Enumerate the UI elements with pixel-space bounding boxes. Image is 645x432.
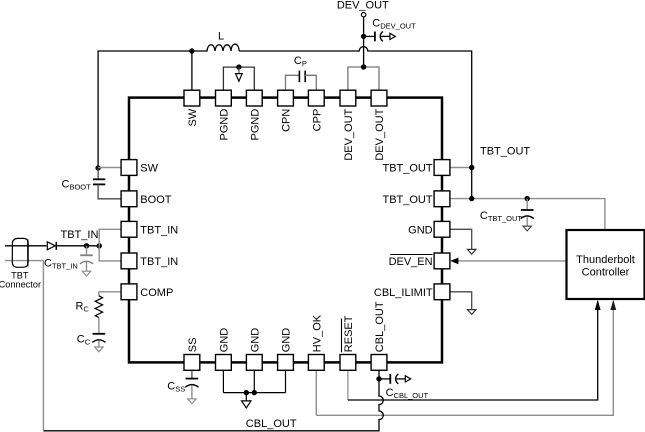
svg-text:TBT_IN: TBT_IN bbox=[61, 229, 99, 241]
wire RESET stub bbox=[347, 370, 349, 400]
node PGND junction bbox=[236, 64, 241, 69]
svg-text:DEV_OUT: DEV_OUT bbox=[337, 0, 389, 11]
node DEV_OUT open-circle terminal bbox=[361, 13, 365, 17]
svg-text:PGND: PGND bbox=[218, 109, 230, 141]
svg-text:CBL_OUT: CBL_OUT bbox=[374, 301, 386, 352]
svg-text:Connector: Connector bbox=[0, 280, 41, 290]
node GND bus junction 2 bbox=[252, 390, 257, 395]
capacitor C_C bbox=[93, 333, 106, 335]
pin GND (bottom) bbox=[246, 355, 262, 371]
pin GND (bottom) bbox=[278, 355, 294, 371]
node C_TBT_OUT tap bbox=[525, 196, 530, 201]
wire GND right stub bbox=[450, 229, 472, 249]
overline RESET bbox=[341, 319, 343, 353]
wire DEV_OUT vertical bbox=[363, 17, 365, 67]
node C_CBL_OUT tap bbox=[376, 376, 381, 381]
capacitor C_TBT_OUT bbox=[526, 199, 528, 210]
IC U1 body bbox=[129, 98, 442, 363]
pin GND (right) bbox=[434, 221, 450, 237]
pin DEV_EN (right) bbox=[434, 253, 450, 269]
pin CPN (top) bbox=[278, 90, 294, 106]
svg-text:Controller: Controller bbox=[582, 267, 630, 279]
wire RESET to controller bbox=[348, 301, 598, 400]
wire SW net left vertical bbox=[98, 51, 192, 168]
svg-text:DEV_EN: DEV_EN bbox=[389, 256, 433, 268]
ground CBL_ILIMIT arrow bbox=[468, 310, 476, 315]
capacitor C_DEV_OUT bbox=[364, 35, 375, 37]
ground PGND arrow bbox=[238, 67, 240, 74]
wire CBL_ILIMIT stub bbox=[450, 292, 472, 310]
capacitor C_P bbox=[286, 75, 300, 90]
wire R_C to C_C bbox=[98, 318, 100, 334]
svg-text:DEV_OUT: DEV_OUT bbox=[374, 108, 386, 160]
capacitor C_CBL_OUT bbox=[379, 378, 390, 380]
wire CBL_OUT return vertical bbox=[42, 261, 44, 431]
node TBT_OUT junction 2 bbox=[469, 196, 474, 201]
node SW/L junction bbox=[189, 48, 194, 53]
pin SW (left) bbox=[121, 160, 137, 176]
wire COMP to compensation network bbox=[99, 292, 121, 296]
capacitor C_TBT_IN bbox=[86, 246, 88, 256]
pin RESET (bottom) bbox=[340, 355, 356, 371]
pin CBL_OUT (bottom) bbox=[371, 355, 387, 371]
svg-text:CPN: CPN bbox=[281, 109, 293, 132]
capacitor C_BOOT bbox=[97, 168, 99, 179]
arrowhead DEV_EN into pin bbox=[450, 258, 458, 265]
wire PGND pin bracket bbox=[223, 67, 254, 90]
pin TBT_OUT (right) bbox=[434, 191, 450, 207]
pin SS (bottom) bbox=[184, 355, 200, 371]
node DEV_OUT bracket junction bbox=[361, 64, 366, 69]
diode D1 bbox=[47, 242, 55, 250]
svg-text:RESET: RESET bbox=[343, 315, 355, 352]
svg-text:CBL_OUT: CBL_OUT bbox=[246, 418, 297, 430]
IC U2 Thunderbolt Controller bbox=[567, 230, 645, 299]
svg-text:L: L bbox=[218, 30, 224, 42]
svg-text:HV_OK: HV_OK bbox=[311, 314, 323, 352]
wire SW top pin tap bbox=[191, 51, 193, 90]
svg-text:GND: GND bbox=[218, 328, 230, 353]
pin CBL_ILIMIT (right) bbox=[434, 284, 450, 300]
pin DEV_OUT (top) bbox=[371, 90, 387, 106]
wire HV_OK stub bbox=[315, 370, 317, 415]
pin TBT_IN (left) bbox=[121, 221, 137, 237]
node SW/C_BOOT junction bbox=[95, 165, 100, 170]
wire CBL_OUT pin down with hops bbox=[43, 370, 383, 431]
pin GND (bottom) bbox=[216, 355, 232, 371]
arrowhead HV_OK into controller bbox=[610, 300, 616, 310]
wire TBT_IN pin bracket bbox=[99, 229, 121, 261]
svg-text:COMP: COMP bbox=[140, 287, 173, 299]
pin SW (top) bbox=[184, 90, 200, 106]
TBT connector body bbox=[12, 238, 28, 267]
pin HV_OK (bottom) bbox=[308, 355, 324, 371]
svg-text:BOOT: BOOT bbox=[140, 194, 171, 206]
wire HV_OK to controller bbox=[316, 301, 613, 415]
svg-text:Thunderbolt: Thunderbolt bbox=[576, 254, 635, 266]
node DEV_OUT/cap junction bbox=[361, 34, 366, 39]
wire diode to TBT_IN node bbox=[57, 245, 99, 247]
node TBT_IN cap junction bbox=[84, 243, 89, 248]
wire to SW pin bbox=[98, 167, 121, 169]
wire TBT_OUT pin1 stub bbox=[450, 167, 472, 169]
svg-text:GND: GND bbox=[249, 328, 261, 353]
resistor R_C bbox=[95, 296, 102, 318]
node TBT_OUT junction 1 bbox=[469, 165, 474, 170]
pin BOOT (left) bbox=[121, 191, 137, 207]
svg-text:CPP: CPP bbox=[311, 109, 323, 132]
pin CPP (top) bbox=[308, 90, 324, 106]
svg-text:TBT_OUT: TBT_OUT bbox=[382, 194, 432, 206]
svg-text:SS: SS bbox=[187, 338, 199, 353]
svg-text:GND: GND bbox=[281, 328, 293, 353]
overline DEV_EN bbox=[390, 254, 432, 256]
svg-text:PGND: PGND bbox=[249, 109, 261, 141]
svg-text:DEV_OUT: DEV_OUT bbox=[343, 108, 355, 160]
arrowhead RESET into controller bbox=[595, 300, 601, 310]
wire DEV_EN from controller bbox=[457, 260, 567, 262]
wire GND bus verticals bbox=[222, 370, 224, 392]
svg-text:TBT_IN: TBT_IN bbox=[140, 224, 178, 236]
pin TBT_IN (left) bbox=[121, 253, 137, 269]
pin DEV_OUT (top) bbox=[340, 90, 356, 106]
wire DEV_OUT pin bracket bbox=[348, 67, 379, 90]
wire TBT_IN from connector bbox=[5, 245, 47, 247]
wire L output to TBT_OUT node (hops over DEV_OUT line) bbox=[239, 47, 472, 199]
pin TBT_OUT (right) bbox=[434, 160, 450, 176]
pin COMP (left) bbox=[121, 284, 137, 300]
pin PGND (top) bbox=[216, 90, 232, 106]
svg-text:TBT_OUT: TBT_OUT bbox=[382, 163, 432, 175]
node GND bus junction 1 bbox=[244, 390, 249, 395]
svg-text:TBT_IN: TBT_IN bbox=[140, 256, 178, 268]
pin PGND (top) bbox=[246, 90, 262, 106]
ground GND bus arrow bbox=[245, 393, 247, 401]
ground GND right arrow bbox=[468, 249, 476, 254]
node TBT_IN bracket junction bbox=[97, 243, 102, 248]
svg-text:GND: GND bbox=[408, 224, 433, 236]
capacitor C_SS bbox=[191, 370, 193, 378]
svg-text:SW: SW bbox=[187, 108, 199, 126]
svg-text:CBL_ILIMIT: CBL_ILIMIT bbox=[374, 287, 433, 299]
wire GND bus horizontal bbox=[223, 392, 285, 394]
wire TBT_OUT pin2 run to controller bbox=[450, 199, 605, 230]
svg-text:SW: SW bbox=[140, 163, 158, 175]
wire CBL_OUT return to connector bbox=[5, 260, 44, 262]
svg-text:TBT_OUT: TBT_OUT bbox=[480, 146, 530, 158]
inductor L bbox=[192, 44, 239, 51]
